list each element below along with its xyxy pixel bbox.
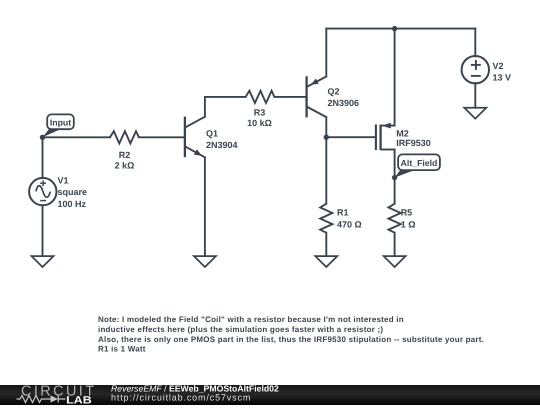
wire node to M2 gate	[326, 136, 376, 138]
svg-text:Q2: Q2	[328, 87, 340, 97]
CircuitLab logo resistor-diode glyph	[17, 396, 66, 403]
svg-text:square: square	[58, 187, 88, 197]
wire R5 to ground	[394, 233, 396, 256]
svg-text:Alt_Field: Alt_Field	[401, 158, 438, 168]
svg-text:LAB: LAB	[66, 395, 92, 405]
wire V2 to ground	[474, 83, 476, 108]
CircuitLab logo wordmark CIRCUIT	[21, 384, 94, 400]
transistor Q2	[307, 76, 327, 117]
wire M2 drain to Alt_Field node	[394, 150, 396, 178]
wire Q2 collector to R1	[325, 117, 327, 204]
wire input node down to V1	[42, 137, 44, 178]
label R2 value	[115, 150, 135, 171]
junction node (Q2 collector / R1 / M2 gate)	[324, 135, 329, 140]
svg-text:R5: R5	[401, 208, 413, 218]
resistor R5	[389, 204, 401, 233]
svg-text:M2: M2	[396, 128, 409, 138]
label V1	[58, 176, 88, 209]
junction node (M2 drain / R5 / Alt_Field)	[392, 175, 397, 180]
transistor M2	[376, 123, 395, 150]
label V2	[493, 61, 512, 83]
svg-text:R2: R2	[119, 150, 131, 160]
wire Q2 emitter to top rail	[325, 29, 327, 77]
junction node (Input)	[40, 135, 45, 140]
voltage source V1	[29, 178, 56, 205]
svg-text:R1: R1	[337, 208, 349, 218]
label Q2	[328, 87, 360, 109]
label M2	[396, 128, 431, 148]
resistor R2	[110, 131, 139, 143]
label R3 value	[247, 108, 272, 128]
transistor Q1	[185, 117, 205, 158]
ground (V2)	[464, 108, 486, 119]
svg-text:13 V: 13 V	[493, 73, 512, 83]
svg-text:100 Hz: 100 Hz	[58, 199, 87, 209]
node flag Alt_Field	[395, 154, 440, 177]
footer bar	[0, 385, 540, 405]
wire M2 source to top rail	[394, 29, 396, 126]
svg-text:R1 is 1 Watt: R1 is 1 Watt	[98, 345, 146, 354]
label Q1	[206, 129, 238, 151]
CircuitLab logo wordmark LAB	[66, 395, 92, 407]
wire Alt_Field node to R5	[394, 178, 396, 204]
svg-text:2N3906: 2N3906	[328, 98, 360, 108]
wire V1 to ground	[42, 205, 44, 256]
svg-text:2N3904: 2N3904	[206, 140, 238, 150]
svg-text:Input: Input	[50, 117, 71, 127]
wire V2 top stub	[474, 29, 476, 57]
wire R2 to Q1 base	[139, 136, 184, 138]
svg-text:10 kΩ: 10 kΩ	[247, 118, 272, 128]
label R5 value	[401, 208, 416, 230]
wire R3 to Q2 base	[274, 96, 305, 98]
wire input node to R2	[43, 136, 111, 138]
svg-text:V1: V1	[58, 176, 69, 186]
svg-text:IRF9530: IRF9530	[396, 138, 431, 148]
voltage source V2	[462, 56, 489, 83]
svg-text:V2: V2	[493, 61, 504, 71]
svg-text:inductive effects here (plus t: inductive effects here (plus the simulat…	[98, 325, 383, 334]
ground (R1)	[315, 256, 337, 267]
svg-text:Note: I modeled the Field "Coi: Note: I modeled the Field "Coil" with a …	[98, 315, 404, 324]
node flag Input	[43, 114, 74, 137]
wire Q1 emitter to ground	[204, 157, 206, 256]
svg-text:1 Ω: 1 Ω	[401, 219, 416, 229]
svg-text:2 kΩ: 2 kΩ	[115, 160, 135, 170]
note annotation text	[98, 315, 484, 354]
svg-text:470 Ω: 470 Ω	[337, 219, 362, 229]
svg-text:http://circuitlab.com/c57vscm: http://circuitlab.com/c57vscm	[111, 393, 251, 403]
svg-text:Also, there is only one PMOS p: Also, there is only one PMOS part in the…	[98, 335, 484, 344]
resistor R1	[320, 204, 332, 233]
svg-text:Q1: Q1	[206, 129, 218, 139]
junction node (top rail / M2 source)	[392, 26, 397, 31]
wire top rail	[326, 28, 475, 30]
wire R1 to ground	[325, 233, 327, 256]
wire Q1 collector to R3	[205, 97, 246, 117]
ground (V1)	[32, 256, 54, 267]
ground (R5)	[384, 256, 406, 267]
label R1 value	[337, 208, 362, 230]
svg-text:R3: R3	[254, 108, 266, 118]
footer title text	[111, 384, 279, 403]
ground (Q1 emitter)	[194, 256, 216, 267]
resistor R3	[246, 91, 275, 103]
